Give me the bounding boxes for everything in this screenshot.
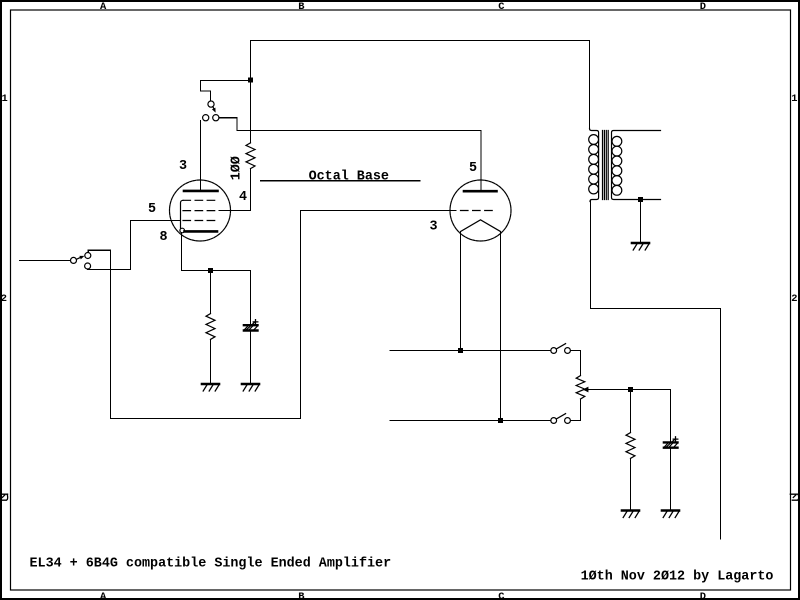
tube V1 cathode hook xyxy=(180,228,185,233)
wire filament upper run xyxy=(390,350,551,352)
tube V2 filament xyxy=(461,220,501,232)
svg-text:D: D xyxy=(700,591,706,600)
svg-text:C: C xyxy=(498,591,504,600)
switch SW2 pole contact xyxy=(208,101,214,107)
svg-text:5: 5 xyxy=(148,202,156,217)
svg-text:C: C xyxy=(498,1,504,13)
ground below transformer secondary xyxy=(632,242,649,245)
switch SW3 contact left xyxy=(551,348,557,354)
node junction secondary to ground xyxy=(638,197,643,202)
row label 3 right (rotated) xyxy=(790,494,798,500)
wire R3 to ground xyxy=(630,458,632,510)
switch SW2 throw contact right xyxy=(213,115,219,121)
wire junction to bypass cap xyxy=(250,271,252,325)
svg-text:1ØØ: 1ØØ xyxy=(230,156,245,180)
tube V1 plate xyxy=(184,190,218,193)
wire SW4 to hum pot bottom xyxy=(570,399,580,421)
switch SW1 throw contact upper xyxy=(85,253,91,259)
wire V2 filament right leg xyxy=(500,232,502,421)
switch SW2 throw contact left xyxy=(203,115,209,121)
node junction B+ / switch feed xyxy=(248,78,253,83)
wire SW2 left throw to V1 plate xyxy=(200,121,202,190)
node junction filament upper xyxy=(458,348,463,353)
switch SW4 contact left xyxy=(551,418,557,424)
ground below bypass cap xyxy=(242,383,259,386)
svg-text:2: 2 xyxy=(1,293,7,305)
tube V2 grid xyxy=(461,210,497,212)
tube V2 plate xyxy=(464,190,497,193)
wire B+ rail to transformer primary xyxy=(589,41,591,129)
svg-text:8: 8 xyxy=(160,230,168,245)
transformer T1 core xyxy=(603,131,609,200)
node junction filament lower xyxy=(498,418,503,423)
wire B+ top rail xyxy=(251,40,590,42)
wire V2 filament left leg xyxy=(460,232,462,351)
switch SW3 blade xyxy=(556,344,565,349)
svg-text:B: B xyxy=(298,591,305,600)
resistor R2 cathode bias xyxy=(206,314,215,340)
tube V2 envelope xyxy=(450,180,511,241)
tube V1 cathode xyxy=(185,230,218,233)
wire SW3 to hum pot top xyxy=(570,351,580,376)
svg-text:1: 1 xyxy=(791,93,797,105)
svg-text:A: A xyxy=(100,1,107,13)
svg-text:5: 5 xyxy=(469,161,477,176)
row label 3 left (rotated) xyxy=(0,494,8,500)
wire V1 cathode down xyxy=(182,233,251,271)
svg-text:3: 3 xyxy=(179,159,187,174)
switch SW3 contact right xyxy=(565,348,571,354)
ground below C2 xyxy=(662,509,679,512)
tube V1 grid bus xyxy=(181,200,184,228)
switch SW4 blade xyxy=(556,414,565,419)
wire SW2 right throw to V2 plate (y=130 run) xyxy=(219,118,481,190)
tube V1 envelope xyxy=(170,180,231,241)
tube V1 grid g2 (screen) xyxy=(183,210,219,212)
wire junction to bias resistor xyxy=(210,271,212,314)
svg-text:4: 4 xyxy=(239,190,247,205)
svg-text:2: 2 xyxy=(791,293,797,305)
switch SW1 blade xyxy=(76,257,81,259)
svg-text:EL34 + 6B4G compatible Single: EL34 + 6B4G compatible Single Ended Ampl… xyxy=(30,557,392,572)
wire junction to screen resistor xyxy=(250,80,252,143)
resistor R3 xyxy=(626,433,635,459)
switch SW2 blade xyxy=(213,107,215,111)
svg-text:A: A xyxy=(100,591,107,600)
transformer T1 primary frame xyxy=(590,129,599,202)
wire SW1 lower throw to V1 grid xyxy=(88,221,181,270)
node junction cathode RC xyxy=(208,268,213,273)
potentiometer RV1 body xyxy=(576,376,585,399)
wire filament lower run xyxy=(390,420,551,422)
wire bias resistor to ground xyxy=(210,339,212,383)
tube V1 grid g1 xyxy=(183,199,219,201)
ground below bias resistor xyxy=(202,383,219,386)
wire primary return xyxy=(591,201,721,539)
node junction wiper RC xyxy=(628,387,633,392)
wire secondary to ground xyxy=(640,200,642,243)
svg-text:1Øth Nov 2Ø12 by Lagarto: 1Øth Nov 2Ø12 by Lagarto xyxy=(581,569,774,584)
svg-text:Octal Base: Octal Base xyxy=(309,169,389,184)
wire wiper to RC xyxy=(588,389,670,391)
wire SW1 upper throw to V2 grid (long run) xyxy=(88,211,456,419)
wire R1 to pin 4 xyxy=(219,169,251,211)
wire C2 to ground xyxy=(670,449,672,510)
switch SW1 throw contact lower xyxy=(85,263,91,269)
tube V1 grid g3 xyxy=(183,220,219,222)
wire bypass cap to ground xyxy=(250,332,252,384)
potentiometer RV1 wiper arrow xyxy=(587,389,589,391)
wire junction to resistor R3 xyxy=(630,390,632,433)
switch SW4 contact right xyxy=(565,418,571,424)
capacitor C2 xyxy=(664,441,678,443)
svg-text:B: B xyxy=(298,1,305,13)
resistor R1 100 ohm xyxy=(246,143,255,169)
wire junction to plate selector switch xyxy=(201,81,251,101)
transformer T1 secondary frame xyxy=(612,131,661,200)
switch SW1 pole contact xyxy=(71,257,77,263)
transformer T1 secondary turns xyxy=(612,136,622,146)
transformer T1 primary turns xyxy=(589,135,599,145)
capacitor C1 cathode bypass xyxy=(244,324,258,326)
wire input terminal xyxy=(20,260,71,262)
wire to capacitor C2 xyxy=(670,390,672,442)
ground below R3 xyxy=(622,509,639,512)
svg-text:3: 3 xyxy=(430,219,438,234)
wire B+ rail left drop xyxy=(250,41,252,81)
svg-text:D: D xyxy=(700,1,706,13)
svg-text:1: 1 xyxy=(2,93,8,105)
